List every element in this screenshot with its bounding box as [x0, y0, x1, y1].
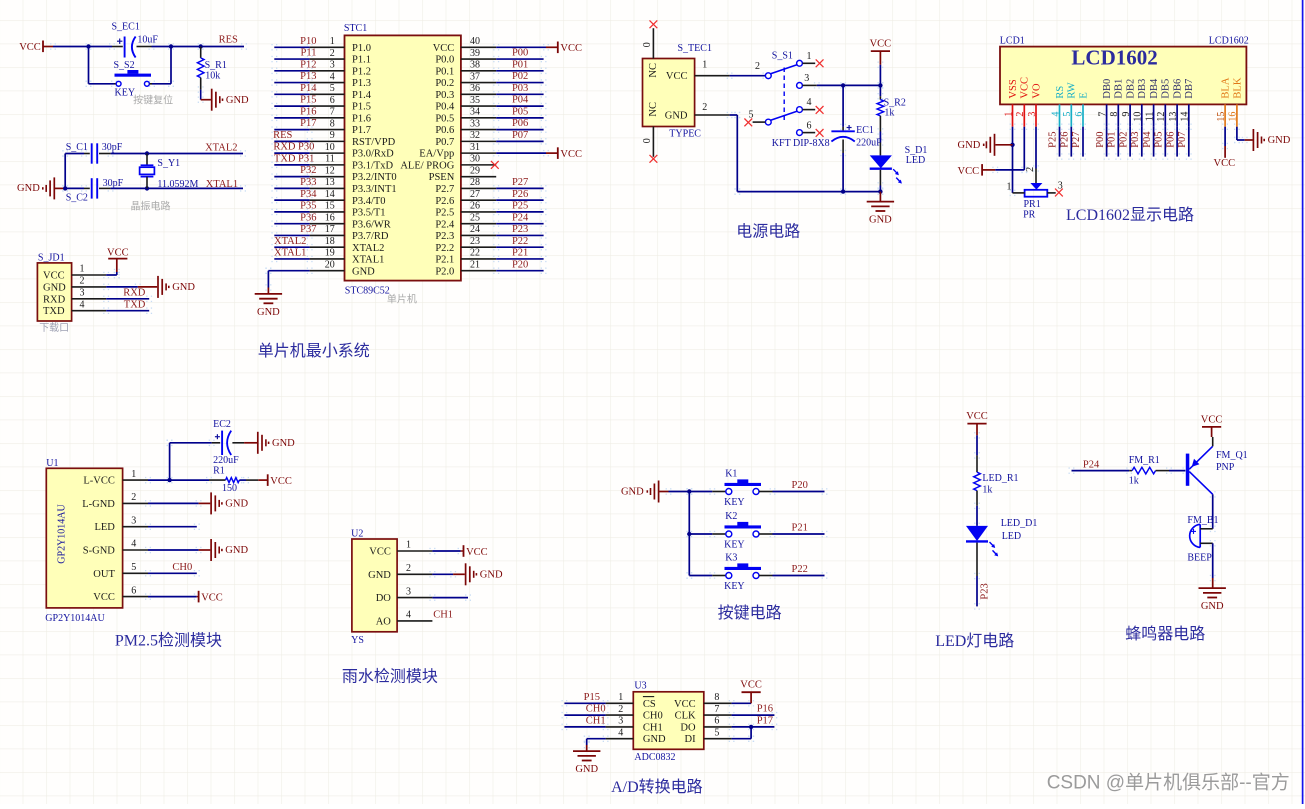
svg-text:1: 1	[406, 540, 411, 551]
svg-text:KEY: KEY	[724, 497, 745, 508]
svg-text:P03: P03	[512, 83, 528, 94]
svg-text:VCC: VCC	[270, 476, 292, 487]
svg-text:VO: VO	[1031, 83, 1042, 99]
svg-text:LED_D1: LED_D1	[1001, 518, 1038, 529]
svg-text:GND: GND	[225, 545, 248, 556]
svg-text:7: 7	[1097, 112, 1108, 117]
svg-text:VCC: VCC	[674, 699, 696, 710]
svg-text:NC: NC	[648, 102, 659, 117]
svg-text:GP2Y1014AU: GP2Y1014AU	[57, 503, 68, 563]
svg-text:P22: P22	[512, 236, 528, 247]
svg-text:GND: GND	[665, 111, 688, 122]
svg-text:16: 16	[1228, 112, 1239, 122]
svg-text:P1.6: P1.6	[352, 113, 371, 124]
svg-text:P3.0/RxD: P3.0/RxD	[352, 149, 394, 160]
svg-text:6: 6	[330, 95, 335, 106]
svg-text:P2.6: P2.6	[435, 196, 454, 207]
svg-text:P24: P24	[1083, 460, 1100, 471]
svg-text:2: 2	[406, 563, 411, 574]
svg-text:KEY: KEY	[724, 540, 745, 551]
svg-text:P37: P37	[300, 224, 316, 235]
svg-text:19: 19	[325, 248, 335, 259]
svg-text:VCC: VCC	[870, 39, 892, 50]
svg-text:P22: P22	[792, 564, 808, 575]
svg-text:P0.1: P0.1	[435, 66, 454, 77]
svg-text:GND: GND	[272, 438, 295, 449]
svg-text:15: 15	[325, 201, 335, 212]
svg-text:OUT: OUT	[93, 569, 115, 580]
svg-text:DO: DO	[680, 722, 696, 733]
svg-text:P25: P25	[512, 201, 528, 212]
svg-text:E: E	[1078, 92, 1089, 98]
svg-text:S_C2: S_C2	[66, 193, 88, 204]
svg-text:4: 4	[131, 539, 136, 550]
svg-text:RW: RW	[1067, 82, 1078, 98]
svg-text:P21: P21	[792, 523, 808, 534]
svg-text:GND: GND	[575, 764, 598, 775]
svg-text:P16: P16	[300, 106, 316, 117]
svg-text:24: 24	[470, 224, 480, 235]
svg-text:P1.5: P1.5	[352, 102, 371, 113]
svg-text:2: 2	[755, 61, 760, 72]
svg-text:P04: P04	[512, 95, 529, 106]
svg-text:VCC: VCC	[43, 271, 65, 282]
svg-text:XTAL1: XTAL1	[352, 255, 384, 266]
svg-text:U3: U3	[634, 681, 646, 692]
svg-text:3: 3	[804, 73, 809, 84]
svg-text:P0.0: P0.0	[435, 55, 454, 66]
svg-text:RXD: RXD	[123, 287, 146, 298]
svg-text:晶振电路: 晶振电路	[131, 200, 171, 213]
svg-text:PNP: PNP	[1216, 462, 1235, 473]
svg-text:220uF: 220uF	[213, 455, 239, 466]
svg-text:R1: R1	[213, 466, 225, 477]
svg-text:按键电路: 按键电路	[718, 604, 782, 622]
svg-text:P2.2: P2.2	[435, 243, 454, 254]
svg-text:14: 14	[325, 189, 335, 200]
svg-text:P3.7/RD: P3.7/RD	[352, 231, 389, 242]
svg-text:29: 29	[470, 165, 480, 176]
svg-text:23: 23	[470, 236, 480, 247]
svg-text:L-GND: L-GND	[82, 499, 115, 510]
svg-text:K2: K2	[725, 511, 737, 522]
svg-text:P20: P20	[512, 259, 528, 270]
svg-text:36: 36	[470, 83, 480, 94]
svg-text:P20: P20	[792, 480, 808, 491]
svg-text:P0.6: P0.6	[435, 125, 454, 136]
svg-text:STC1: STC1	[344, 23, 367, 34]
svg-text:P27: P27	[512, 177, 528, 188]
svg-text:P23: P23	[512, 224, 528, 235]
svg-text:21: 21	[470, 259, 480, 270]
svg-text:P3.5/T1: P3.5/T1	[352, 208, 386, 219]
svg-text:1: 1	[618, 692, 623, 703]
svg-text:P26: P26	[512, 189, 528, 200]
svg-text:XTAL1: XTAL1	[206, 179, 238, 190]
svg-text:P03: P03	[1130, 131, 1141, 147]
svg-text:P31: P31	[298, 153, 314, 164]
svg-text:VCC: VCC	[93, 592, 115, 603]
svg-text:BEEP: BEEP	[1187, 552, 1212, 563]
svg-text:P1.1: P1.1	[352, 55, 371, 66]
svg-text:8: 8	[330, 118, 335, 129]
svg-text:BLA: BLA	[1221, 77, 1232, 98]
svg-text:34: 34	[470, 107, 480, 118]
svg-text:TXD: TXD	[124, 299, 146, 310]
svg-text:VCC: VCC	[740, 680, 762, 691]
svg-text:STC89C52: STC89C52	[345, 285, 390, 296]
svg-text:FM_Q1: FM_Q1	[1216, 450, 1248, 461]
svg-text:VCC: VCC	[107, 247, 129, 258]
svg-text:VCC: VCC	[560, 149, 582, 160]
svg-text:L-VCC: L-VCC	[83, 476, 115, 487]
svg-text:P05: P05	[512, 106, 528, 117]
svg-text:S_C1: S_C1	[66, 142, 88, 153]
svg-text:P2.5: P2.5	[435, 208, 454, 219]
svg-text:30pF: 30pF	[103, 178, 124, 189]
svg-text:S_R1: S_R1	[205, 60, 227, 71]
svg-text:32: 32	[470, 130, 480, 141]
svg-text:1: 1	[80, 264, 85, 275]
svg-text:雨水检测模块: 雨水检测模块	[342, 667, 438, 685]
svg-text:CH0: CH0	[643, 711, 663, 722]
svg-text:P25: P25	[1048, 131, 1059, 147]
svg-text:P27: P27	[1071, 131, 1082, 147]
svg-text:VSS: VSS	[1008, 79, 1019, 98]
svg-text:P35: P35	[300, 201, 316, 212]
svg-text:DB7: DB7	[1184, 79, 1195, 99]
svg-text:TXD: TXD	[274, 153, 296, 164]
svg-text:RS: RS	[1055, 86, 1066, 99]
svg-text:GND: GND	[958, 140, 981, 151]
svg-text:EC2: EC2	[213, 419, 231, 430]
svg-text:5: 5	[131, 562, 136, 573]
svg-text:S_TEC1: S_TEC1	[678, 43, 712, 54]
svg-text:P3.2/INT0: P3.2/INT0	[352, 172, 397, 183]
svg-text:14: 14	[1180, 112, 1191, 122]
svg-text:XTAL2: XTAL2	[352, 243, 384, 254]
svg-text:1: 1	[702, 60, 707, 71]
svg-text:2: 2	[702, 102, 707, 113]
svg-text:5: 5	[330, 83, 335, 94]
svg-text:11.0592M: 11.0592M	[157, 179, 198, 190]
svg-text:GND: GND	[621, 487, 644, 498]
svg-text:220uF: 220uF	[856, 137, 882, 148]
svg-text:DI: DI	[685, 734, 697, 745]
svg-text:2: 2	[131, 492, 136, 503]
svg-text:P1.3: P1.3	[352, 78, 371, 89]
svg-text:RST/VPD: RST/VPD	[352, 137, 396, 148]
svg-text:1: 1	[1003, 112, 1014, 117]
svg-text:GND: GND	[225, 499, 248, 510]
svg-text:DB2: DB2	[1126, 79, 1137, 99]
svg-text:PR1: PR1	[1024, 199, 1041, 210]
svg-text:VCC: VCC	[666, 71, 688, 82]
svg-text:P26: P26	[1060, 131, 1071, 147]
svg-text:4: 4	[1050, 112, 1061, 117]
svg-text:P15: P15	[584, 692, 600, 703]
svg-text:35: 35	[470, 95, 480, 106]
svg-text:GND: GND	[480, 569, 503, 580]
svg-text:150: 150	[222, 483, 237, 494]
svg-text:BLK: BLK	[1232, 77, 1243, 98]
svg-text:GND: GND	[172, 282, 195, 293]
svg-text:电源电路: 电源电路	[736, 223, 800, 241]
svg-text:P2.3: P2.3	[435, 231, 454, 242]
svg-text:P13: P13	[300, 71, 316, 82]
svg-text:VCC: VCC	[1201, 414, 1223, 425]
svg-text:VCC: VCC	[1214, 158, 1236, 169]
svg-text:P0.5: P0.5	[435, 113, 454, 124]
svg-text:PR: PR	[1023, 210, 1036, 221]
svg-text:EA/Vpp: EA/Vpp	[419, 149, 454, 160]
svg-text:P2.7: P2.7	[435, 184, 454, 195]
svg-text:P34: P34	[300, 189, 317, 200]
svg-text:P30: P30	[298, 142, 314, 153]
svg-text:0: 0	[642, 138, 653, 143]
svg-text:TYPEC: TYPEC	[669, 129, 701, 140]
svg-text:P06: P06	[1165, 131, 1176, 147]
svg-text:7: 7	[714, 704, 719, 715]
svg-text:8: 8	[1109, 112, 1120, 117]
svg-text:33: 33	[470, 118, 480, 129]
svg-text:CS: CS	[643, 699, 656, 710]
svg-text:6: 6	[131, 585, 136, 596]
svg-text:P24: P24	[512, 212, 529, 223]
svg-text:YS: YS	[351, 635, 364, 646]
svg-text:U2: U2	[351, 529, 363, 540]
svg-text:TXD: TXD	[43, 306, 65, 317]
svg-text:22: 22	[470, 248, 480, 259]
svg-text:S_S2: S_S2	[114, 60, 135, 71]
svg-text:20: 20	[325, 259, 335, 270]
svg-text:P17: P17	[757, 716, 773, 727]
svg-text:LCD1: LCD1	[1000, 36, 1025, 47]
svg-text:10: 10	[1133, 112, 1144, 122]
svg-text:12: 12	[325, 165, 335, 176]
svg-text:31: 31	[470, 142, 480, 153]
svg-text:P32: P32	[300, 165, 316, 176]
svg-text:27: 27	[470, 189, 480, 200]
svg-text:P01: P01	[1107, 131, 1118, 147]
svg-text:28: 28	[470, 177, 480, 188]
svg-text:P23: P23	[980, 583, 991, 599]
svg-text:P1.2: P1.2	[352, 66, 371, 77]
svg-text:2: 2	[80, 276, 85, 287]
svg-text:VCC: VCC	[369, 547, 391, 558]
svg-text:PSEN: PSEN	[429, 172, 455, 183]
svg-text:P16: P16	[757, 704, 773, 715]
svg-text:DB3: DB3	[1137, 79, 1148, 99]
svg-text:XTAL2: XTAL2	[274, 236, 306, 247]
svg-text:16: 16	[325, 212, 335, 223]
svg-text:4: 4	[80, 299, 85, 310]
svg-text:1: 1	[131, 469, 136, 480]
svg-text:1: 1	[1007, 182, 1012, 193]
svg-text:10: 10	[325, 142, 335, 153]
svg-text:VCC: VCC	[433, 43, 455, 54]
svg-text:9: 9	[1121, 112, 1132, 117]
svg-text:P17: P17	[300, 118, 316, 129]
svg-text:1k: 1k	[884, 108, 894, 119]
svg-text:PM2.5检测模块: PM2.5检测模块	[115, 631, 222, 649]
svg-text:DB1: DB1	[1114, 79, 1125, 99]
svg-text:LCD1602显示电路: LCD1602显示电路	[1066, 206, 1194, 224]
svg-text:DB6: DB6	[1173, 79, 1184, 99]
svg-text:7: 7	[330, 107, 335, 118]
svg-text:KFT DIP-8X8: KFT DIP-8X8	[772, 138, 830, 149]
svg-text:11: 11	[325, 154, 335, 165]
svg-text:P12: P12	[300, 59, 316, 70]
svg-text:P2.0: P2.0	[435, 266, 454, 277]
svg-text:RXD: RXD	[43, 294, 66, 305]
svg-text:P3.3/INT1: P3.3/INT1	[352, 184, 397, 195]
svg-text:3: 3	[406, 586, 411, 597]
svg-text:CH0: CH0	[172, 562, 192, 573]
svg-text:P14: P14	[300, 83, 317, 94]
svg-text:RXD: RXD	[273, 142, 296, 153]
svg-text:1: 1	[330, 36, 335, 47]
svg-text:下载口: 下载口	[39, 322, 69, 334]
svg-text:P07: P07	[512, 130, 528, 141]
svg-text:FM_R1: FM_R1	[1129, 455, 1160, 466]
svg-text:S_Y1: S_Y1	[157, 158, 180, 169]
svg-text:40: 40	[470, 36, 480, 47]
svg-text:GND: GND	[17, 183, 40, 194]
svg-text:AO: AO	[376, 616, 392, 627]
svg-text:5: 5	[1062, 112, 1073, 117]
svg-text:P05: P05	[1154, 131, 1165, 147]
svg-text:3: 3	[131, 515, 136, 526]
svg-text:P36: P36	[300, 212, 316, 223]
svg-text:8: 8	[714, 692, 719, 703]
svg-text:GND: GND	[1201, 601, 1224, 612]
svg-text:K1: K1	[725, 469, 737, 480]
svg-text:38: 38	[470, 60, 480, 71]
svg-text:ALE/ PROG: ALE/ PROG	[400, 160, 454, 171]
svg-text:单片机最小系统: 单片机最小系统	[258, 342, 370, 360]
svg-text:39: 39	[470, 48, 480, 59]
svg-text:GND: GND	[43, 282, 66, 293]
svg-text:S-GND: S-GND	[83, 546, 116, 557]
svg-text:S_S1: S_S1	[772, 50, 793, 61]
svg-text:P07: P07	[1177, 131, 1188, 147]
svg-text:P1.0: P1.0	[352, 43, 371, 54]
svg-text:37: 37	[470, 71, 480, 82]
svg-text:XTAL2: XTAL2	[205, 143, 237, 154]
svg-text:26: 26	[470, 201, 480, 212]
svg-text:P0.4: P0.4	[435, 102, 455, 113]
svg-text:P1.7: P1.7	[352, 125, 371, 136]
svg-text:XTAL1: XTAL1	[274, 248, 306, 259]
svg-text:VCC: VCC	[560, 43, 582, 54]
svg-text:13: 13	[325, 177, 335, 188]
svg-text:10uF: 10uF	[137, 34, 158, 45]
svg-text:CSDN @单片机俱乐部--官方: CSDN @单片机俱乐部--官方	[1047, 771, 1290, 793]
svg-text:P01: P01	[512, 59, 528, 70]
svg-text:ADC0832: ADC0832	[634, 752, 675, 763]
svg-text:P0.2: P0.2	[435, 78, 454, 89]
svg-text:CH1: CH1	[433, 610, 453, 621]
svg-text:25: 25	[470, 212, 480, 223]
svg-text:LED: LED	[1002, 531, 1021, 542]
svg-text:2: 2	[1015, 112, 1026, 117]
svg-text:DB0: DB0	[1102, 79, 1113, 99]
svg-text:30: 30	[470, 154, 480, 165]
svg-text:P21: P21	[512, 248, 528, 259]
svg-text:P0.3: P0.3	[435, 90, 454, 101]
svg-text:VCC: VCC	[19, 42, 41, 53]
svg-text:P15: P15	[300, 95, 316, 106]
svg-text:CH1: CH1	[643, 722, 663, 733]
svg-text:17: 17	[325, 224, 335, 235]
svg-text:3: 3	[1058, 181, 1063, 192]
svg-text:P2.1: P2.1	[435, 255, 454, 266]
svg-text:VCC: VCC	[966, 411, 988, 422]
svg-text:P3.4/T0: P3.4/T0	[352, 196, 386, 207]
svg-text:1k: 1k	[1129, 476, 1139, 487]
svg-text:9: 9	[330, 130, 335, 141]
svg-text:2: 2	[1025, 167, 1036, 172]
svg-text:1: 1	[807, 51, 812, 62]
svg-text:GND: GND	[226, 95, 249, 106]
svg-text:3: 3	[618, 716, 623, 727]
svg-text:3: 3	[80, 288, 85, 299]
svg-text:6: 6	[807, 121, 812, 132]
svg-text:4: 4	[406, 610, 411, 621]
svg-text:P33: P33	[300, 177, 316, 188]
svg-text:P2.4: P2.4	[435, 219, 455, 230]
svg-text:P3.1/TxD: P3.1/TxD	[352, 160, 394, 171]
svg-text:VCC: VCC	[1020, 77, 1031, 99]
svg-text:VCC: VCC	[958, 166, 980, 177]
svg-text:RES: RES	[219, 35, 238, 46]
svg-text:S_JD1: S_JD1	[38, 253, 65, 264]
svg-text:LED_R1: LED_R1	[982, 473, 1018, 484]
svg-text:6: 6	[714, 716, 719, 727]
svg-text:2: 2	[618, 704, 623, 715]
svg-text:P02: P02	[512, 71, 528, 82]
svg-text:1k: 1k	[982, 485, 992, 496]
svg-text:P3.6/WR: P3.6/WR	[352, 219, 391, 230]
svg-text:RES: RES	[273, 130, 292, 141]
svg-text:GND: GND	[869, 215, 892, 226]
svg-text:A/D转换电路: A/D转换电路	[611, 778, 703, 796]
svg-text:P11: P11	[301, 48, 317, 59]
svg-text:CLK: CLK	[675, 711, 696, 722]
svg-text:11: 11	[1144, 112, 1155, 122]
svg-text:EC1: EC1	[856, 125, 874, 136]
svg-text:5: 5	[714, 727, 719, 738]
svg-text:CH1: CH1	[586, 716, 606, 727]
svg-text:LED: LED	[906, 155, 925, 166]
svg-text:KEY: KEY	[115, 88, 136, 99]
svg-text:P02: P02	[1118, 131, 1129, 147]
svg-text:2: 2	[330, 48, 335, 59]
svg-text:4: 4	[330, 71, 335, 82]
svg-text:18: 18	[325, 236, 335, 247]
svg-text:P10: P10	[300, 36, 316, 47]
svg-text:GND: GND	[1268, 135, 1291, 146]
svg-text:K3: K3	[725, 553, 737, 564]
svg-text:GP2Y1014AU: GP2Y1014AU	[45, 613, 105, 624]
svg-text:P04: P04	[1142, 131, 1153, 148]
svg-text:0: 0	[642, 42, 653, 47]
svg-text:LCD1602: LCD1602	[1071, 46, 1157, 70]
svg-text:CH0: CH0	[586, 704, 606, 715]
svg-text:U1: U1	[46, 458, 58, 469]
svg-text:LCD1602: LCD1602	[1209, 36, 1249, 47]
